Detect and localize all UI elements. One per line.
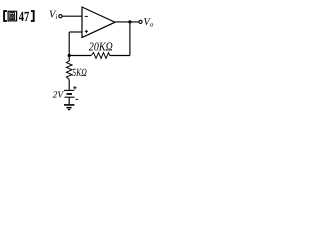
wire node A down to resistor R2	[68, 56, 70, 62]
wire Vi to op-amp inverting input	[62, 15, 82, 17]
battery B1 second long plate	[65, 96, 75, 98]
wire feedback bottom left segment	[69, 55, 91, 57]
wire feedback bottom right segment	[110, 55, 130, 57]
input terminal Vi	[59, 15, 62, 18]
wire op-amp output	[115, 21, 139, 23]
svg-text:Vo: Vo	[143, 17, 153, 29]
wire feedback down from output junction	[129, 22, 131, 56]
op-amp U1	[82, 7, 115, 38]
output terminal Vo	[139, 20, 142, 23]
resistor R2 5KΩ zigzag	[66, 61, 72, 79]
svg-text:2V: 2V	[53, 90, 65, 100]
title glyph 圖	[8, 11, 17, 21]
wire battery to ground	[68, 97, 70, 105]
wire resistor R2 to battery	[68, 79, 70, 90]
wire op-amp noninverting input left	[69, 31, 82, 33]
op-amp minus pin label	[85, 15, 88, 17]
resistor R1 20KΩ zigzag	[91, 53, 110, 59]
ground bar 3	[68, 109, 70, 111]
node A junction dot	[68, 54, 71, 57]
op-amp plus pin label	[85, 30, 88, 33]
title bracket left 【	[4, 11, 7, 21]
svg-text:5KΩ: 5KΩ	[72, 67, 87, 79]
node output junction	[128, 20, 131, 23]
battery minus sign	[75, 98, 78, 100]
svg-text:Vi: Vi	[49, 9, 57, 21]
svg-text:20KΩ: 20KΩ	[89, 39, 113, 53]
ground bar 1	[64, 104, 74, 106]
wire down to node A	[68, 32, 70, 56]
svg-text:47: 47	[19, 10, 30, 25]
battery plus sign	[73, 86, 76, 89]
battery B1 short plate	[67, 93, 73, 95]
ground bar 2	[66, 107, 71, 109]
title bracket right 】	[31, 11, 34, 21]
battery B1 plus plate	[64, 89, 74, 91]
